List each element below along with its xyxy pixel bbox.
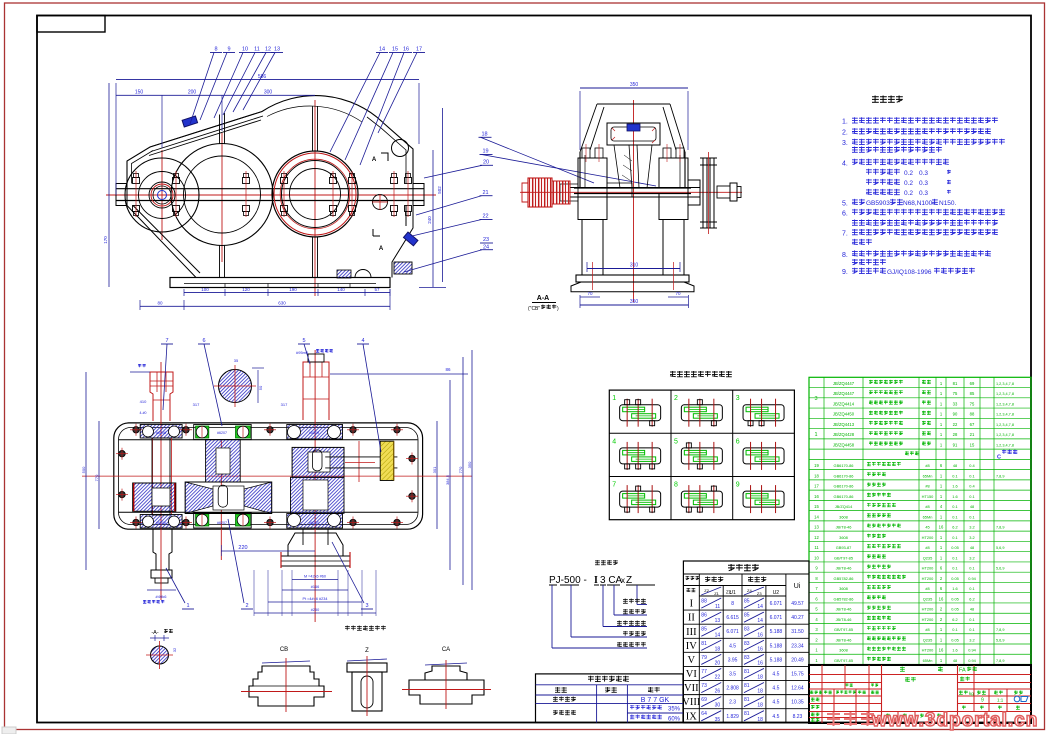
- svg-text:1,2,3,4,7,8: 1,2,3,4,7,8: [996, 392, 1014, 396]
- right studs: [663, 148, 671, 158]
- cover corner ticks red: [612, 128, 655, 143]
- svg-text:22: 22: [715, 675, 721, 681]
- svg-text:0.2: 0.2: [904, 180, 913, 187]
- svg-text:1,2,3,4,7,8: 1,2,3,4,7,8: [996, 433, 1014, 437]
- base: [576, 275, 689, 282]
- svg-text:HT200: HT200: [922, 566, 935, 571]
- svg-text:48: 48: [953, 463, 957, 468]
- svg-text:16: 16: [757, 632, 763, 638]
- svg-text:#8: #8: [925, 586, 929, 591]
- svg-text:18: 18: [757, 689, 763, 695]
- svg-text:N68,N100: N68,N100: [903, 200, 933, 207]
- requirement line at y=178.9: [866, 179, 900, 185]
- internal flange bottom line: [119, 511, 418, 513]
- svg-text:5.188: 5.188: [770, 657, 783, 663]
- svg-text:x: x: [621, 576, 625, 585]
- svg-text:Z3: Z3: [757, 591, 762, 596]
- svg-text:#8: #8: [925, 545, 929, 550]
- svg-text:I: I: [594, 575, 598, 586]
- left section small texts: [810, 691, 822, 694]
- flange lines: [574, 187, 691, 189]
- svg-text:48: 48: [970, 607, 974, 612]
- rib output lower: [313, 237, 318, 278]
- svg-text:5: 5: [674, 438, 678, 445]
- svg-text:86: 86: [701, 613, 707, 619]
- pinion shaft2 upper: [206, 440, 241, 482]
- svg-text:JB/T8-46: JB/T8-46: [836, 637, 852, 642]
- svg-text:83: 83: [744, 627, 750, 633]
- svg-text:2: 2: [674, 395, 678, 402]
- svg-text:48: 48: [970, 545, 974, 550]
- svg-text:4.5: 4.5: [772, 700, 779, 706]
- transmission ratio table: [682, 561, 809, 723]
- svg-text:HT200: HT200: [922, 535, 935, 540]
- svg-text:410: 410: [140, 399, 147, 404]
- svg-text:69: 69: [701, 697, 707, 703]
- svg-text:83: 83: [744, 655, 750, 661]
- svg-text:6.071: 6.071: [770, 601, 783, 607]
- dim 150 200 300: [116, 94, 315, 96]
- leg center marks: [592, 262, 594, 290]
- svg-text:U1: U1: [729, 590, 736, 596]
- right bearing housing: [659, 158, 688, 188]
- legs: [582, 220, 684, 276]
- housing bolt at 397,522.5: [394, 519, 400, 525]
- svg-text:JB/ZQ4450: JB/ZQ4450: [833, 412, 855, 417]
- svg-text:16: 16: [403, 47, 409, 53]
- svg-text:Q235: Q235: [923, 596, 933, 601]
- housing bolt at 136,429.8: [133, 427, 139, 433]
- svg-text:32: 32: [172, 647, 177, 652]
- svg-text:CA: CA: [442, 647, 450, 653]
- svg-text:#8: #8: [925, 504, 929, 509]
- base plate: [170, 278, 390, 288]
- dim 70 right: [668, 296, 688, 298]
- svg-text:301: 301: [432, 466, 437, 473]
- svg-text:VII: VII: [684, 683, 699, 694]
- view Z: [347, 648, 387, 716]
- left section grid: [809, 674, 882, 676]
- inspection cover slanted plate: [149, 112, 263, 156]
- svg-text:81: 81: [744, 669, 750, 675]
- svg-text:240: 240: [427, 216, 432, 224]
- housing bolt at 136,522.5: [133, 519, 139, 525]
- Z2/Z1 header diagonals: [701, 587, 721, 595]
- PLAN SECTION VIEW of gearbox: [81, 338, 472, 669]
- svg-text:7,8,9: 7,8,9: [996, 526, 1004, 530]
- ratio row V: [683, 651, 809, 653]
- svg-text:0.4: 0.4: [969, 463, 975, 468]
- svg-text:3.2: 3.2: [969, 637, 974, 642]
- svg-text:Z: Z: [365, 648, 369, 654]
- inspection cover inner: [611, 127, 656, 141]
- svg-text:31.50: 31.50: [791, 629, 804, 635]
- svg-text:0.1: 0.1: [952, 566, 957, 571]
- watermark 3dportal: [827, 712, 874, 726]
- svg-text:18: 18: [481, 132, 487, 138]
- requirement line at y=168.8: [866, 169, 900, 175]
- svg-text:502: 502: [437, 186, 442, 194]
- svg-text:0.94: 0.94: [968, 648, 976, 653]
- svg-text:#8: #8: [925, 627, 929, 632]
- svg-text:18: 18: [715, 646, 721, 652]
- oil level hatch: [337, 270, 351, 278]
- shaft lines: [570, 187, 700, 189]
- svg-text:JB/ZQ4428: JB/ZQ4428: [833, 432, 855, 437]
- svg-text:770: 770: [94, 474, 99, 481]
- mid gear circles C2: [171, 144, 273, 246]
- svg-text:75: 75: [970, 401, 975, 406]
- svg-text:0.94: 0.94: [968, 658, 976, 663]
- svg-text:JB/ZQ4447: JB/ZQ4447: [833, 381, 855, 386]
- svg-text:1,2,3,4,7,8: 1,2,3,4,7,8: [996, 413, 1014, 417]
- svg-text:0.3: 0.3: [919, 170, 928, 177]
- svg-text:57: 57: [374, 287, 380, 292]
- svg-text:81: 81: [744, 711, 750, 717]
- horizontal centerline: [82, 475, 472, 477]
- keyway slot gear2: [218, 485, 227, 507]
- svg-text:GB5782-86: GB5782-86: [834, 576, 854, 581]
- cover neck rib: [614, 145, 652, 188]
- svg-text:81: 81: [744, 683, 750, 689]
- svg-text:8.: 8.: [842, 252, 848, 259]
- dim 586 top: [116, 78, 419, 80]
- assembly variants 3x3 table: [609, 371, 794, 520]
- svg-text:JB/ZQ4458: JB/ZQ4458: [833, 443, 855, 448]
- centerline vertical: [633, 100, 635, 302]
- svg-text:GB5782-86: GB5782-86: [834, 596, 854, 601]
- svg-text:4.: 4.: [842, 160, 848, 167]
- svg-text:3608: 3608: [839, 586, 848, 591]
- ratio row IX: [683, 708, 809, 710]
- bearing block shaft1 top: [140, 425, 182, 439]
- svg-text:16: 16: [757, 646, 763, 652]
- svg-text:3608: 3608: [839, 648, 848, 653]
- svg-text:120: 120: [242, 287, 250, 292]
- svg-text:18: 18: [757, 703, 763, 709]
- input shaft red edges: [152, 438, 154, 514]
- svg-text:770: 770: [458, 466, 463, 473]
- svg-text:1,2,3,4,7,8: 1,2,3,4,7,8: [996, 402, 1014, 406]
- svg-text:GB5903: GB5903: [866, 200, 890, 207]
- callout line 4: [570, 585, 572, 637]
- input shaft bottom extension: [153, 529, 172, 570]
- svg-text:317: 317: [281, 402, 288, 407]
- svg-text:0.05: 0.05: [951, 576, 959, 581]
- svg-text:JB/ZQ4414: JB/ZQ4414: [833, 401, 855, 406]
- svg-text:17: 17: [416, 47, 422, 53]
- svg-text:GB6170-86: GB6170-86: [834, 484, 854, 489]
- inspection cover outer: [607, 123, 660, 145]
- gear1 lower left: [133, 483, 176, 511]
- dim 80 630: [140, 305, 390, 307]
- shaft 1 centerline: [160, 362, 162, 600]
- svg-text:0.4: 0.4: [969, 484, 975, 489]
- svg-text:#8: #8: [925, 463, 929, 468]
- svg-text:1.6: 1.6: [952, 586, 957, 591]
- svg-text:90: 90: [953, 412, 958, 417]
- svg-text:8: 8: [674, 482, 678, 489]
- svg-text:6.2: 6.2: [969, 596, 974, 601]
- ratio row II: [683, 609, 809, 611]
- svg-text:48: 48: [970, 504, 974, 509]
- yellow coupling piece: [380, 441, 394, 480]
- svg-text:86: 86: [445, 367, 451, 372]
- center bottom rows: [882, 711, 958, 713]
- svg-text:73: 73: [701, 683, 707, 689]
- shaft 4 centerline yellow part: [358, 441, 360, 482]
- svg-text:6.2: 6.2: [952, 617, 957, 622]
- web to yellow coupling: [325, 457, 397, 468]
- top-left file box: [37, 16, 105, 33]
- svg-text:JB/T8-46: JB/T8-46: [836, 566, 852, 571]
- svg-text:10: 10: [242, 47, 248, 53]
- svg-text:8: 8: [731, 601, 734, 607]
- svg-text:79: 79: [701, 655, 707, 661]
- svg-text:10: 10: [814, 555, 819, 560]
- left bearing housing: [578, 158, 607, 188]
- svg-text:Z1: Z1: [714, 591, 719, 596]
- svg-text:Q235: Q235: [923, 637, 933, 642]
- callout line 1: [636, 585, 638, 605]
- table title: [670, 371, 732, 377]
- svg-text:14: 14: [757, 618, 763, 624]
- housing bolt at 412,496.2: [409, 493, 415, 499]
- svg-text:HT200: HT200: [922, 576, 935, 581]
- cover cap blue: [627, 124, 640, 131]
- output bearing boss circles C3: [272, 151, 358, 237]
- svg-text:67: 67: [970, 422, 975, 427]
- svg-text:0.3: 0.3: [919, 180, 928, 187]
- input shaft top dims: [130, 371, 150, 373]
- ratio row VIII: [683, 694, 809, 696]
- svg-text:JB/ZQ414: JB/ZQ414: [835, 504, 853, 509]
- svg-text:4.5: 4.5: [772, 671, 779, 677]
- svg-text:30: 30: [715, 703, 721, 709]
- svg-text:Q235: Q235: [923, 555, 933, 560]
- svg-text:350: 350: [630, 299, 639, 305]
- svg-text:4: 4: [361, 338, 364, 344]
- row contact: [553, 710, 576, 715]
- housing bolt at 186,522.5: [183, 519, 189, 525]
- output coupling dims: [292, 578, 338, 580]
- flange right end block: [413, 184, 424, 206]
- svg-text:0.1: 0.1: [952, 504, 957, 509]
- svg-text:0.1: 0.1: [952, 535, 957, 540]
- A-A SECTION VIEW: [520, 82, 742, 312]
- svg-text:A: A: [372, 157, 377, 163]
- svg-text:80: 80: [157, 301, 163, 306]
- svg-text:350: 350: [467, 461, 472, 468]
- svg-text:35: 35: [715, 717, 721, 723]
- svg-text:GJ/IQ108-1996: GJ/IQ108-1996: [887, 269, 932, 276]
- title JiShuYaoQiu: [872, 96, 903, 103]
- svg-text:15: 15: [970, 443, 975, 448]
- housing bolt at 412,458.5: [409, 455, 415, 461]
- center drawing number row: [905, 677, 916, 682]
- coupling side red ticks: [280, 552, 282, 568]
- hatched circle detail: [151, 646, 169, 664]
- svg-text:N150.: N150.: [939, 200, 957, 207]
- svg-text:0.1: 0.1: [969, 514, 974, 519]
- svg-text:14: 14: [715, 632, 721, 638]
- svg-text:2.: 2.: [842, 130, 848, 137]
- input shaft top extension red: [150, 372, 173, 421]
- svg-text:69: 69: [970, 381, 975, 386]
- bearing block shaft3 top: [287, 425, 343, 440]
- svg-text:75: 75: [953, 391, 958, 396]
- housing walls: [579, 152, 581, 188]
- svg-text:II: II: [688, 613, 695, 624]
- svg-text:11: 11: [715, 604, 720, 610]
- svg-text:0.05: 0.05: [951, 545, 959, 550]
- svg-text:7,8,9: 7,8,9: [996, 474, 1004, 478]
- centerline input shaft: [161, 150, 163, 240]
- bottom-left dims of shaft: [147, 589, 176, 591]
- svg-text:5,6,9: 5,6,9: [996, 546, 1004, 550]
- svg-text:JB/T8-46: JB/T8-46: [836, 525, 852, 530]
- svg-text:15: 15: [814, 504, 819, 509]
- svg-text:200: 200: [188, 90, 197, 96]
- flange left end block: [116, 184, 127, 206]
- svg-text:IX: IX: [686, 711, 697, 722]
- svg-text:6: 6: [202, 338, 205, 344]
- centerline shaft horizontal: [520, 191, 742, 193]
- svg-text:7.: 7.: [842, 231, 848, 238]
- output coupling bell: [288, 533, 343, 556]
- svg-text:350: 350: [630, 82, 639, 88]
- svg-text:77: 77: [701, 669, 707, 675]
- requirement line at y=219.5: [852, 220, 998, 226]
- svg-text:GB93-87: GB93-87: [836, 545, 852, 550]
- svg-text:C: C: [997, 454, 1001, 460]
- shaft end views label: [345, 626, 386, 631]
- svg-text:11: 11: [254, 47, 260, 53]
- svg-text:5.: 5.: [842, 200, 848, 207]
- svg-text:85: 85: [744, 599, 750, 605]
- svg-text:1: 1: [612, 395, 616, 402]
- svg-text:28: 28: [953, 432, 958, 437]
- header rows: [683, 585, 786, 587]
- svg-text:0.1: 0.1: [952, 473, 957, 478]
- callout line 5: [551, 585, 553, 648]
- svg-text:65Mn: 65Mn: [923, 473, 933, 478]
- svg-text:15: 15: [392, 47, 398, 53]
- svg-text:22: 22: [482, 214, 488, 220]
- svg-text:150: 150: [135, 90, 144, 96]
- view CB: [241, 647, 332, 712]
- ratio row III: [683, 623, 809, 625]
- gear2 big lower: [185, 482, 272, 514]
- svg-text:10.35: 10.35: [791, 700, 804, 706]
- svg-text:1,2,3,4,7,8: 1,2,3,4,7,8: [996, 382, 1014, 386]
- svg-text:140: 140: [337, 287, 345, 292]
- centerline output shaft: [314, 100, 316, 296]
- output shaft below housing: [303, 529, 328, 545]
- svg-text:GB/T97-85: GB/T97-85: [834, 555, 853, 560]
- svg-text:3.: 3.: [842, 140, 848, 147]
- svg-text:20.49: 20.49: [791, 657, 804, 663]
- svg-text:85: 85: [970, 391, 975, 396]
- svg-text:3 CA: 3 CA: [600, 575, 623, 586]
- svg-text:3608: 3608: [839, 535, 848, 540]
- svg-text:310: 310: [630, 263, 639, 269]
- svg-text:26: 26: [715, 689, 721, 695]
- housing top plate: [597, 103, 670, 105]
- svg-text:Ui: Ui: [794, 583, 801, 590]
- svg-text:4: 4: [612, 438, 616, 445]
- svg-text:6.071: 6.071: [726, 629, 739, 635]
- housing bolt at 186,429.8: [183, 427, 189, 433]
- svg-text:170: 170: [103, 236, 108, 244]
- svg-text:16: 16: [939, 596, 944, 601]
- svg-text:40.27: 40.27: [791, 615, 804, 621]
- svg-text:3.2: 3.2: [969, 535, 974, 540]
- svg-text:85: 85: [744, 613, 750, 619]
- centerline horizontal main shafts: [106, 194, 436, 196]
- svg-text:PJ-500 -: PJ-500 -: [549, 575, 587, 586]
- svg-text:4.5: 4.5: [772, 686, 779, 692]
- svg-text:1: 1: [186, 603, 189, 609]
- svg-text:0.05: 0.05: [951, 596, 959, 601]
- svg-text:48: 48: [953, 658, 957, 663]
- svg-text:Z4: Z4: [747, 588, 752, 593]
- housing bolt at 270,429.8: [267, 427, 273, 433]
- svg-text:HT200: HT200: [922, 607, 935, 612]
- svg-text:15.75: 15.75: [791, 671, 804, 677]
- title block main verticals: [881, 665, 883, 723]
- svg-text:V: V: [688, 655, 696, 666]
- oil sight boss: [373, 195, 388, 210]
- svg-text:("CB": ("CB": [528, 306, 540, 312]
- svg-text:2.808: 2.808: [726, 686, 739, 692]
- red cross small shaft4: [345, 461, 375, 463]
- svg-text:60%: 60%: [668, 717, 681, 723]
- svg-text:0.94: 0.94: [968, 576, 976, 581]
- view CA: [402, 647, 491, 709]
- bearing block shaft1 bottom: [140, 515, 182, 529]
- svg-text:3.5: 3.5: [729, 671, 736, 677]
- svg-text:3.2: 3.2: [969, 555, 974, 560]
- svg-text:JB/T8-46: JB/T8-46: [836, 607, 852, 612]
- svg-text:81: 81: [701, 641, 707, 647]
- bearing block shaft2 bottom green: [194, 513, 252, 528]
- housing bolt at 353,429.8: [350, 427, 356, 433]
- svg-text:0.2: 0.2: [904, 170, 913, 177]
- ratio row VI: [683, 665, 809, 667]
- base bump: [355, 270, 371, 278]
- dim 70 left: [580, 296, 600, 298]
- svg-text:21: 21: [970, 432, 975, 437]
- callout line 2: [613, 585, 615, 615]
- svg-text:18: 18: [757, 675, 763, 681]
- row accuracy: [553, 697, 576, 702]
- flange studs: [133, 178, 140, 184]
- centerline mid shaft: [221, 133, 223, 262]
- breather plug: [182, 116, 197, 127]
- svg-text:12.64: 12.64: [791, 686, 804, 692]
- housing bolt at 122,494.6: [119, 491, 125, 497]
- top dim 86: [330, 373, 468, 375]
- svg-text:20: 20: [715, 660, 721, 666]
- svg-text:220: 220: [238, 545, 247, 551]
- left studs: [582, 148, 590, 158]
- internal flange top line: [119, 439, 418, 441]
- svg-text:9.: 9.: [842, 269, 848, 276]
- left header texts row: [846, 684, 853, 687]
- left vertical dim: [108, 83, 110, 287]
- svg-text:65Mn: 65Mn: [923, 658, 933, 663]
